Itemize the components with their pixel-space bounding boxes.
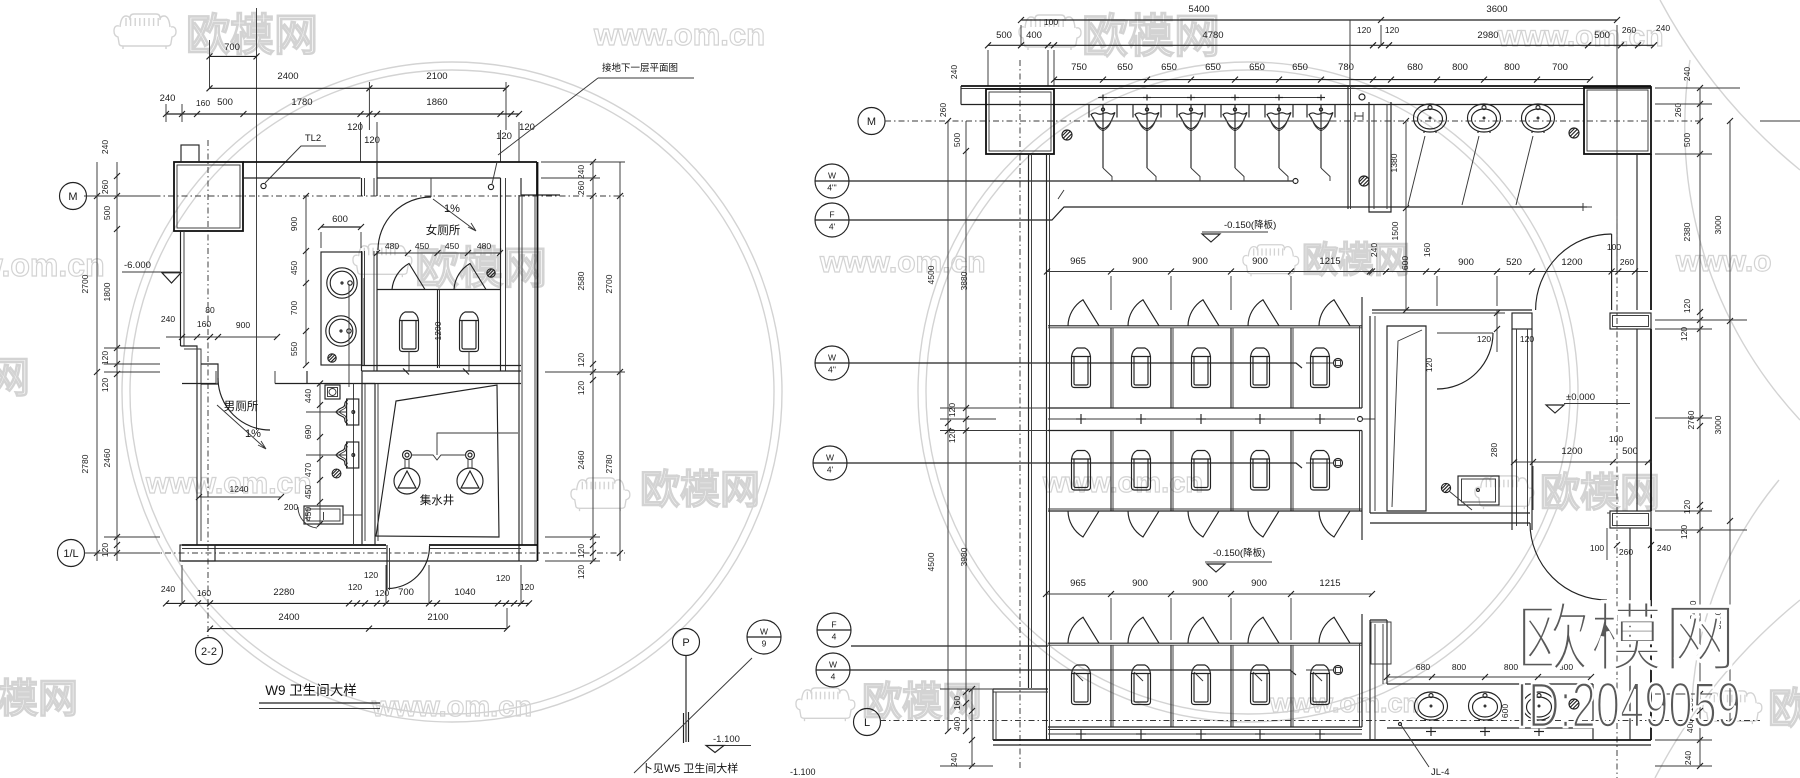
svg-text:-1.100: -1.100 [790,767,816,777]
toilet pan women's stall 2 [460,312,479,352]
sink counter bottom right [1387,683,1593,685]
pier top-left right plan [986,89,1054,154]
svg-text:P: P [682,637,689,649]
women's stall center partition [437,290,439,369]
svg-text:260: 260 [1673,103,1683,117]
right outer wall mid band [1636,329,1638,511]
svg-text:700: 700 [1552,62,1568,73]
pipe line F-4' [849,207,1587,220]
left bottom dim 160 400 240 [971,689,973,766]
cleanout symbol row A [1334,359,1343,368]
wash basin top 2 [1468,104,1501,132]
svg-text:W: W [760,627,768,637]
vertical grid axis dash-dot x1020 [1019,60,1021,770]
detail circle W/9 [747,620,781,654]
pier right mid C [1610,511,1651,528]
riser circle W-4'' [815,346,849,380]
sump pit slanted outline [376,385,499,537]
svg-text:900: 900 [1251,578,1267,589]
svg-text:440: 440 [303,389,313,403]
svg-text:120: 120 [947,403,957,417]
svg-text:500: 500 [996,30,1012,41]
svg-text:1860: 1860 [426,97,447,108]
riser circle W-4' [813,446,847,480]
svg-text:450: 450 [415,241,429,251]
svg-text:900: 900 [1132,578,1148,589]
pier bottom-left [180,545,215,561]
urinal room right wall [1347,86,1349,209]
bottom wall right plan [993,739,1651,741]
row B partitions [1110,431,1112,512]
svg-text:www.om.cn: www.om.cn [145,467,312,500]
svg-text:2460: 2460 [102,448,112,467]
urinal extension lines [306,411,346,413]
svg-text:±0.000: ±0.000 [1566,392,1595,403]
row B stall doors [1068,511,1099,537]
svg-text:www.om.cn: www.om.cn [1042,467,1203,499]
svg-text:120: 120 [576,353,586,367]
svg-text:3980: 3980 [959,547,969,566]
slash mark near wall x1060 [1058,190,1064,199]
women's room right wall [500,178,502,371]
svg-text:500: 500 [217,97,233,108]
women's room bottom wall double [362,365,521,367]
row 3 front wall line [1048,642,1362,644]
detail circle P [673,629,700,656]
pipe line W-4'' row A [849,363,1302,368]
sink room left wall [1369,620,1371,740]
svg-text:4500: 4500 [926,552,936,571]
axis circle L right plan [854,709,881,736]
svg-text:欧模网: 欧模网 [0,354,30,401]
svg-text:520: 520 [1506,257,1522,268]
svg-text:400: 400 [1026,30,1042,41]
svg-text:-0.150(降板): -0.150(降板) [1224,219,1276,231]
riser circle F-4' [815,203,849,237]
svg-text:2760: 2760 [1686,410,1696,429]
left plan section line 2-2 vertical [256,8,258,430]
svg-text:900: 900 [236,320,250,330]
svg-text:4': 4' [827,465,834,475]
svg-text:100: 100 [1609,434,1623,444]
svg-text:240: 240 [949,753,959,767]
svg-text:965: 965 [1070,256,1086,267]
svg-text:1%: 1% [245,428,261,440]
right outer wall upper band [1636,154,1638,310]
svg-text:240: 240 [1682,67,1692,81]
svg-text:1200: 1200 [433,321,443,340]
lobby top wall [1372,309,1532,311]
sump room outline [374,384,376,546]
svg-text:M: M [867,116,876,128]
svg-text:900: 900 [1132,256,1148,267]
svg-text:120: 120 [1520,334,1534,344]
svg-text:690: 690 [303,425,313,439]
left plan grid axis M dash-dot [87,195,625,197]
dim 5400 3600 top row [1021,19,1617,21]
cleaner room door arc [1437,333,1493,389]
small door 200 [298,507,317,528]
left wall below pier double pair 2 [1046,154,1048,740]
svg-text:1215: 1215 [1319,256,1340,267]
pipe line W-4''' to urinal manifold [849,180,1293,182]
svg-text:欧模网: 欧模网 [1540,471,1660,515]
svg-text:2700: 2700 [604,274,614,293]
svg-text:120: 120 [1385,25,1399,35]
left dim chain right plan 4500 4500 [947,121,949,731]
svg-text:120: 120 [364,570,378,580]
round basin 1 [327,268,357,298]
svg-text:100: 100 [1607,242,1621,252]
svg-text:160: 160 [197,588,211,598]
basin drain slants [1408,136,1425,205]
leader diagonal W5 detail [634,658,752,773]
svg-text:780: 780 [1338,62,1354,73]
svg-text:1380: 1380 [1389,153,1399,172]
sump pump 1 [394,468,420,494]
row 3 partitions [1110,645,1112,727]
cleaner room left wall [1369,316,1371,513]
svg-text:2780: 2780 [80,454,90,473]
svg-text:TL2: TL2 [305,133,321,144]
top wall right step [521,178,560,195]
svg-text:M: M [68,191,77,203]
svg-text:1/L: 1/L [63,548,78,560]
svg-text:260: 260 [1622,25,1636,35]
left dim chain inner 3880 3980 [965,121,967,731]
left wall left plan upper [180,231,182,346]
left plan right dim chain outer [619,162,621,561]
svg-text:480: 480 [477,241,491,251]
svg-text:900: 900 [1192,256,1208,267]
svg-text:欧模网: 欧模网 [1082,10,1220,62]
svg-text:120: 120 [576,544,586,558]
axis circle 2-2 section [196,638,223,665]
svg-text:-1.100: -1.100 [713,734,740,745]
svg-text:1040: 1040 [454,587,475,598]
svg-text:www.om.cn: www.om.cn [593,17,765,52]
svg-text:-0.150(降板): -0.150(降板) [1213,547,1265,559]
svg-text:2380: 2380 [1682,222,1692,241]
svg-text:F: F [829,210,834,220]
svg-text:160: 160 [1422,243,1432,257]
svg-text:240: 240 [100,140,110,154]
svg-text:450: 450 [303,507,313,521]
svg-text:600: 600 [1500,704,1510,718]
floor drain urinal area [1062,130,1072,140]
pier right of door [1607,512,1610,514]
svg-text:1200: 1200 [1561,446,1582,457]
fixture wall line men's right [353,384,355,546]
wash basin bottom 3 [1523,692,1556,720]
right outer wall left plan [518,195,520,561]
wall stub left end [960,86,962,105]
dim 600 counter [321,226,361,228]
svg-text:1500: 1500 [1390,221,1400,240]
svg-text:2700: 2700 [80,274,90,293]
svg-text:500: 500 [102,206,112,220]
riser circle F-4 [817,613,851,647]
svg-text:470: 470 [303,463,313,477]
lobby dim 1200 500 100 [1514,461,1652,463]
svg-text:2780: 2780 [604,454,614,473]
svg-text:120: 120 [364,135,380,146]
axis circle M left plan [60,183,87,210]
svg-text:W: W [828,171,836,181]
wall between lobby and sink room [1370,512,1530,514]
svg-text:965: 965 [1070,578,1086,589]
wall riser circle at top wall [1359,94,1365,100]
1% slope arrow men's [217,405,266,449]
sump pump risers [403,451,412,460]
svg-text:240: 240 [1369,243,1379,257]
svg-text:120: 120 [375,588,389,598]
svg-text:4500: 4500 [926,265,936,284]
svg-text:800: 800 [1452,62,1468,73]
floor drain at counter [328,354,336,362]
watermark corner arcs far right [1655,0,1800,778]
svg-text:1240: 1240 [230,484,249,494]
svg-text:900: 900 [1458,257,1474,268]
dim row2 500 400 100 4780 120 2980 500 260 240 [988,44,1654,46]
urinal men's 2 [347,442,359,468]
dim row 80 160 900 men's door [166,336,277,338]
svg-text:欧模网: 欧模网 [1516,597,1737,680]
row B squat pans [1072,451,1091,491]
svg-text:120: 120 [100,351,110,365]
svg-text:160: 160 [196,98,210,108]
svg-text:4''': 4''' [827,183,837,193]
svg-text:2-2: 2-2 [201,646,217,658]
row A stall doors [1068,300,1099,326]
pipe line F-4 [851,645,1048,647]
svg-text:240: 240 [949,65,959,79]
dim 1240 200 [199,496,281,498]
svg-text:2100: 2100 [426,71,447,82]
svg-text:160: 160 [197,319,211,329]
watermark sofa row3 far right [1475,476,1534,509]
svg-text:W: W [826,453,834,463]
left plan right dim chain 2580 2460 [592,162,594,561]
cleanout symbol row B [1334,459,1343,468]
svg-text:240: 240 [161,584,175,594]
svg-text:120: 120 [1424,358,1434,372]
svg-text:2400: 2400 [278,612,299,623]
svg-text:260: 260 [1620,257,1634,267]
svg-text:120: 120 [1357,25,1371,35]
watermark sofa row3 center [571,478,630,511]
svg-text:260: 260 [938,103,948,117]
svg-text:120: 120 [1682,500,1692,514]
JL-4 label with leader [1401,725,1429,767]
cleanout symbol row 3 [1334,666,1343,675]
bottom wall band left plan [182,544,386,546]
row 3 stall doors [1068,617,1099,643]
pipe chase right of urinal room [1369,102,1391,212]
svg-text:3600: 3600 [1486,4,1507,15]
riser circle W-4''' [815,164,849,198]
watermark big circle right [918,62,1578,722]
svg-text:240: 240 [160,93,176,104]
svg-text:160: 160 [952,696,962,710]
vertical grid axis dash-dot x1617 [1616,210,1618,778]
row A front wall line with doors [1048,325,1362,327]
pier right mid B [1610,313,1651,329]
sump discharge pipe [411,455,466,460]
svg-text:1780: 1780 [291,97,312,108]
svg-text:900: 900 [289,217,299,231]
dim 1380 1500 chase [1405,121,1407,310]
svg-text:100: 100 [1044,17,1058,27]
svg-text:L: L [864,717,870,729]
svg-text:120: 120 [576,381,586,395]
svg-text:680: 680 [1416,662,1430,672]
shower square cleaner room [1458,476,1499,505]
svg-text:ID:2049059: ID:2049059 [1516,669,1741,741]
sump pump 2 [457,468,483,494]
svg-text:750: 750 [1071,62,1087,73]
svg-text:3000: 3000 [1713,215,1723,234]
dim row 2400 2100 [210,87,507,89]
left plan bottom dim row 2 [210,628,507,630]
svg-text:2280: 2280 [273,587,294,598]
svg-text:260: 260 [100,180,110,194]
svg-text:120: 120 [576,565,586,579]
svg-text:260: 260 [576,181,586,195]
svg-text:240: 240 [1656,23,1670,33]
dim row AB stalls 965 900 900 900 1215 [1047,271,1372,273]
svg-text:800: 800 [1504,62,1520,73]
svg-text:120: 120 [1682,299,1692,313]
wash basin top 3 [1522,104,1555,132]
row B front wall line [1048,510,1362,512]
pipe riser TL2 with leader [261,183,266,188]
svg-text:2100: 2100 [427,612,448,623]
men's room door arc [218,378,270,430]
svg-text:4780: 4780 [1202,30,1223,41]
row A squat pans [1072,348,1091,388]
svg-text:500: 500 [952,133,962,147]
axis M dash-dot right plan [885,120,1700,122]
svg-text:650: 650 [1161,62,1177,73]
wash basin bottom 2 [1469,692,1502,720]
svg-text:3000: 3000 [1713,415,1723,434]
pipe riser women's right wall [488,184,493,189]
riser circle W-4 [816,653,850,687]
round basin 2 [326,316,356,346]
floor drain pipe chase [1359,176,1369,186]
svg-text:1200: 1200 [1561,257,1582,268]
svg-text:500: 500 [1594,30,1610,41]
svg-text:集水井: 集水井 [420,493,455,507]
svg-text:F: F [831,620,836,630]
floor drain cleaner room [1441,483,1450,492]
wash basin bottom 1 [1415,692,1448,720]
svg-text:www.om.cn: www.om.cn [1497,20,1664,53]
svg-text:120: 120 [496,573,510,583]
lobby jamb piece [1512,313,1532,329]
svg-text:600: 600 [332,214,348,225]
watermark sofa bottom far right [1703,691,1762,724]
watermark big circle left [122,62,782,722]
svg-text:2460: 2460 [576,450,586,469]
left plan left dim chain outer 2700 2780 [96,162,98,561]
svg-text:120: 120 [1477,334,1491,344]
left wall below pier double pair 1 [1028,154,1030,688]
row B back wall [1048,430,1362,432]
left plan vertical grid axis dash-dot x208 [207,140,209,637]
women's stall partition wall [377,289,501,291]
axis circle 1/L left plan [58,540,85,567]
left plan left dim chain inner [116,162,118,561]
svg-text:欧模网: 欧模网 [415,244,547,293]
cleaner room trough [1387,326,1426,511]
row A back wall [1048,407,1362,409]
svg-text:280: 280 [1489,443,1499,457]
svg-text:80: 80 [205,305,215,315]
urinal ledge line [1091,120,1333,122]
toilet pan women's stall 1 [400,312,419,352]
svg-text:600: 600 [1400,256,1410,270]
counter dim chain 900 450 700 550 [305,196,307,365]
svg-text:260: 260 [1619,547,1633,557]
svg-text:4': 4' [829,222,836,232]
top wall band right plan [961,85,1651,87]
svg-text:200: 200 [284,502,298,512]
svg-text:-6.000: -6.000 [124,260,151,271]
svg-text:男厕所: 男厕所 [224,400,259,413]
svg-text:欧模: 欧模 [1768,685,1800,732]
svg-text:欧模网: 欧模网 [186,11,318,60]
svg-text:120: 120 [519,122,535,133]
bottom left recess wall [993,688,1048,690]
urinal men's 1 [347,399,359,425]
wash basin top 1 [1414,104,1447,132]
svg-text:650: 650 [1249,62,1265,73]
watermark sofa top-left [114,14,176,49]
women's room door arc [378,197,431,250]
svg-text:卜见W5 卫生间大样: 卜见W5 卫生间大样 [642,761,739,775]
svg-text:3880: 3880 [959,271,969,290]
svg-text:240: 240 [1657,543,1671,553]
svg-text:240: 240 [161,314,175,324]
dim 120 120 mid gap [940,407,1048,409]
lobby dim row 240 600 160 900 520 1200 [1370,271,1648,273]
svg-text:500: 500 [1622,446,1638,457]
svg-text:240: 240 [1683,751,1693,765]
pier top-left of left plan [174,162,243,231]
svg-text:4: 4 [832,632,837,642]
svg-text:650: 650 [1117,62,1133,73]
svg-text:1%: 1% [444,203,460,215]
top wall band left plan [243,161,537,163]
watermark sofa bottom center [796,688,855,721]
floor drain women's room [487,269,495,277]
svg-text:2400: 2400 [277,71,298,82]
svg-text:700: 700 [289,301,299,315]
svg-text:500: 500 [1682,133,1692,147]
pier top-right right plan [1584,87,1651,154]
row 3 squat pans [1072,665,1091,705]
svg-text:100: 100 [1590,543,1604,553]
dim row3 stalls 965 900 900 900 1215 [1046,593,1372,595]
women's stall door 2 arc [454,264,486,290]
pipe line W-4' row B [847,463,1302,468]
svg-text:欧模网: 欧模网 [640,468,760,512]
svg-text:120: 120 [520,582,534,592]
svg-text:9: 9 [762,639,767,649]
JL-4 niche box [1371,622,1391,664]
